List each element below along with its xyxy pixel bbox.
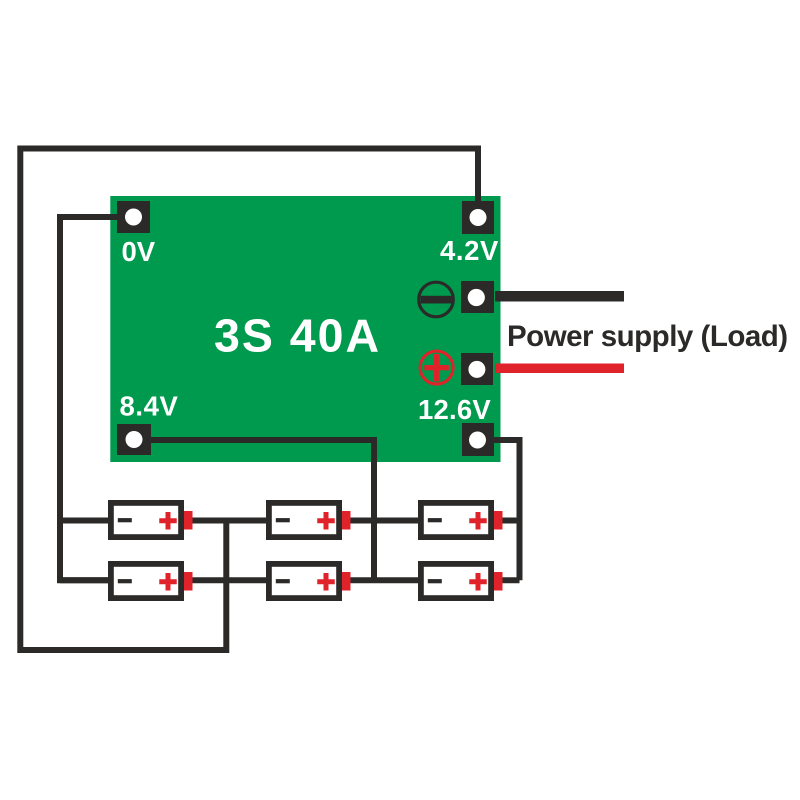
svg-text:0V: 0V: [122, 236, 156, 267]
svg-text:Power supply (Load): Power supply (Load): [507, 320, 788, 353]
svg-text:8.4V: 8.4V: [120, 391, 179, 422]
svg-text:3S 40A: 3S 40A: [214, 310, 381, 362]
svg-text:4.2V: 4.2V: [440, 235, 499, 266]
svg-text:12.6V: 12.6V: [418, 394, 491, 425]
